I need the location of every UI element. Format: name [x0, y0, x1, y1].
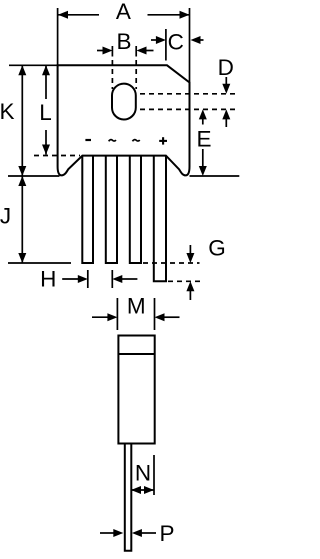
dim K shaft — [21, 65, 23, 176]
dim A shaft right — [148, 14, 190, 16]
lead 2 (front view) — [106, 156, 117, 263]
lead 3 (front view) — [130, 156, 141, 263]
dim G shaft lower — [189, 291, 191, 301]
dim B shaft right — [145, 50, 154, 52]
extension line A left — [57, 8, 59, 65]
dim L shaft upper — [45, 65, 47, 99]
svg-text:K: K — [0, 99, 15, 124]
svg-text:B: B — [116, 29, 131, 54]
dim L shaft lower — [45, 130, 47, 155]
arrowhead P left — [113, 529, 123, 537]
dim H shaft right — [122, 278, 138, 280]
dim J shaft — [21, 176, 23, 263]
arrowhead L top — [42, 65, 50, 75]
arrowhead B left — [103, 47, 113, 55]
svg-text:M: M — [127, 293, 146, 318]
extension line seating plane left — [8, 175, 60, 177]
svg-text:A: A — [116, 0, 131, 24]
extension line seating plane right — [190, 175, 240, 177]
arrowhead C right — [191, 36, 201, 44]
tick M right — [154, 298, 156, 330]
arrowhead N left — [131, 486, 141, 494]
extension line body top left — [9, 64, 58, 66]
tick B right — [135, 46, 137, 57]
dim P shaft right — [141, 532, 156, 534]
arrowhead J bottom — [18, 253, 26, 263]
dim P shaft left — [100, 532, 115, 534]
arrowhead C left — [156, 36, 166, 44]
dashed line B left — [111, 60, 113, 89]
arrowhead B right — [137, 47, 147, 55]
tick B left — [111, 46, 113, 57]
svg-text:D: D — [218, 55, 234, 80]
side view body — [118, 336, 154, 444]
polarity mark minus — [85, 139, 91, 141]
dim G shaft upper — [189, 245, 191, 254]
tick N right — [153, 455, 155, 495]
polarity mark ac2 — [133, 140, 140, 142]
extension line lead tips left — [8, 262, 71, 264]
arrowhead D down — [222, 84, 230, 94]
arrowhead E down — [199, 166, 207, 176]
arrowhead P right — [132, 529, 142, 537]
arrowhead M left — [107, 313, 117, 321]
arrowhead G up — [186, 281, 194, 291]
dim E shaft lower — [202, 149, 204, 167]
dashed line hole bottom (D/E reference) — [140, 108, 239, 110]
svg-text:C: C — [168, 29, 184, 54]
mounting hole (stadium slot) — [112, 84, 136, 120]
arrowhead H right — [112, 275, 122, 283]
dim H shaft left — [62, 278, 78, 280]
dim D shaft lower — [225, 119, 227, 128]
svg-text:H: H — [40, 267, 56, 292]
side view tab line — [118, 353, 154, 355]
arrowhead H left — [78, 275, 88, 283]
dim C shaft left — [151, 39, 157, 41]
svg-text:P: P — [159, 521, 174, 546]
lead 4 (front view) — [154, 156, 166, 282]
svg-text:G: G — [208, 235, 226, 260]
dim M shaft right — [164, 316, 180, 318]
arrowhead A right — [180, 11, 190, 19]
arrowhead N right — [144, 486, 154, 494]
polarity mark plus — [159, 140, 167, 142]
dashed line lead 4 tip (G bottom) — [168, 280, 202, 282]
svg-text:E: E — [196, 127, 211, 152]
tick H left — [87, 270, 89, 288]
dim E shaft upper — [202, 119, 204, 125]
arrowhead L bottom — [42, 145, 50, 155]
dim A shaft left — [58, 14, 99, 16]
dim D shaft upper — [225, 77, 227, 85]
arrowhead A left — [58, 11, 68, 19]
arrowhead K bottom — [18, 166, 26, 176]
arrowhead J top — [18, 176, 26, 186]
dim M shaft left — [92, 316, 109, 318]
svg-text:J: J — [0, 204, 11, 229]
dashed line body bottom (L reference) — [34, 155, 80, 157]
arrowhead M right — [155, 313, 165, 321]
arrowhead K top — [18, 65, 26, 75]
dim C shaft right — [200, 39, 204, 41]
svg-text:N: N — [135, 460, 151, 485]
side view lead — [125, 444, 132, 551]
tick C left — [165, 29, 167, 61]
tick H right — [111, 270, 113, 288]
extension line A/C right — [189, 8, 191, 83]
tick M left — [116, 298, 118, 330]
arrowhead D up — [222, 109, 230, 119]
dashed line B right — [135, 60, 137, 89]
arrowhead E up — [199, 109, 207, 119]
arrowheads are drawn as filled triangles; shafts as lines — [22, 15, 226, 533]
dim N shaft — [131, 489, 154, 491]
lead 1 (front view) — [82, 156, 93, 263]
arrowhead G down — [186, 253, 194, 263]
svg-text:L: L — [39, 100, 52, 125]
package body outline (front view) — [58, 65, 190, 175]
dashed line lead tips (G top) — [143, 262, 200, 264]
dim B shaft left — [97, 50, 104, 52]
dashed line hole top (D reference) — [140, 93, 239, 95]
polarity mark ac1 — [109, 140, 116, 142]
